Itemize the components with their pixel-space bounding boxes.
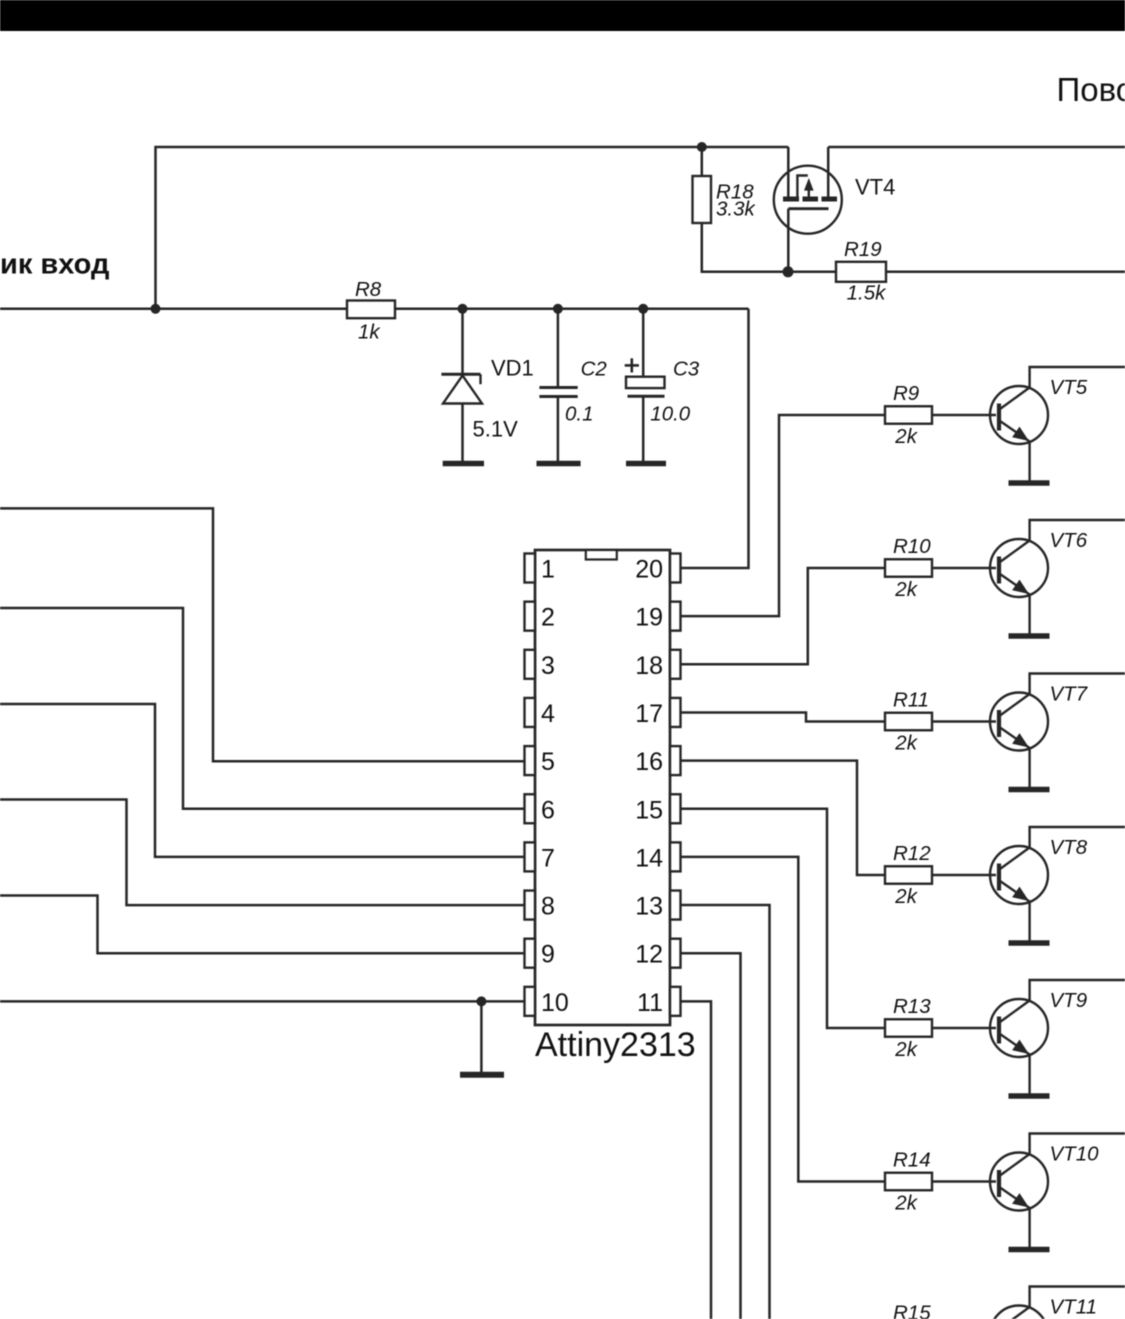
svg-text:VT5: VT5 <box>1050 376 1088 399</box>
svg-text:3.3k: 3.3k <box>716 198 756 221</box>
svg-text:R11: R11 <box>893 689 929 712</box>
svg-text:17: 17 <box>635 700 663 728</box>
svg-text:2: 2 <box>541 604 555 632</box>
svg-text:2k: 2k <box>894 1038 918 1061</box>
svg-text:15: 15 <box>635 796 663 824</box>
svg-text:0.1: 0.1 <box>565 403 594 426</box>
svg-text:C2: C2 <box>581 357 608 380</box>
svg-text:1: 1 <box>541 556 555 584</box>
svg-text:R10: R10 <box>893 535 931 558</box>
svg-text:VT8: VT8 <box>1050 836 1088 859</box>
svg-text:VT9: VT9 <box>1050 989 1088 1012</box>
svg-text:5: 5 <box>541 748 555 776</box>
svg-text:VT4: VT4 <box>855 175 895 200</box>
svg-text:19: 19 <box>635 604 663 632</box>
svg-text:1k: 1k <box>358 321 381 344</box>
svg-text:R12: R12 <box>893 842 931 865</box>
svg-text:ик вход: ик вход <box>0 249 109 281</box>
svg-text:R19: R19 <box>844 238 882 261</box>
svg-text:2k: 2k <box>894 885 918 908</box>
svg-text:R9: R9 <box>893 382 919 405</box>
svg-text:14: 14 <box>635 844 663 872</box>
svg-text:VT6: VT6 <box>1050 529 1088 552</box>
svg-text:2k: 2k <box>894 425 918 448</box>
svg-text:VD1: VD1 <box>491 355 534 380</box>
svg-text:5.1V: 5.1V <box>473 417 519 442</box>
svg-text:R8: R8 <box>355 278 382 301</box>
svg-text:10: 10 <box>541 989 569 1017</box>
svg-text:6: 6 <box>541 796 555 824</box>
svg-text:2k: 2k <box>894 732 918 755</box>
svg-text:VT7: VT7 <box>1050 683 1089 706</box>
svg-text:12: 12 <box>635 941 663 969</box>
svg-text:Attiny2313: Attiny2313 <box>535 1026 696 1064</box>
svg-text:R14: R14 <box>893 1149 931 1172</box>
svg-text:8: 8 <box>541 893 555 921</box>
svg-text:Поворот: Поворот <box>1057 71 1125 108</box>
svg-text:9: 9 <box>541 941 555 969</box>
svg-text:13: 13 <box>635 893 663 921</box>
svg-text:18: 18 <box>635 652 663 680</box>
svg-text:16: 16 <box>635 748 663 776</box>
svg-text:20: 20 <box>635 556 663 584</box>
svg-text:1.5k: 1.5k <box>847 282 887 305</box>
svg-text:C3: C3 <box>673 357 700 380</box>
svg-text:11: 11 <box>637 989 663 1017</box>
svg-text:4: 4 <box>541 700 555 728</box>
svg-text:R13: R13 <box>893 995 931 1018</box>
svg-text:VT10: VT10 <box>1050 1143 1100 1166</box>
svg-text:10.0: 10.0 <box>650 403 690 426</box>
svg-text:7: 7 <box>541 844 555 872</box>
svg-text:3: 3 <box>541 652 555 680</box>
svg-text:2k: 2k <box>894 578 918 601</box>
svg-text:VT11: VT11 <box>1050 1296 1097 1319</box>
svg-text:R15: R15 <box>893 1302 931 1319</box>
svg-text:2k: 2k <box>894 1192 918 1215</box>
